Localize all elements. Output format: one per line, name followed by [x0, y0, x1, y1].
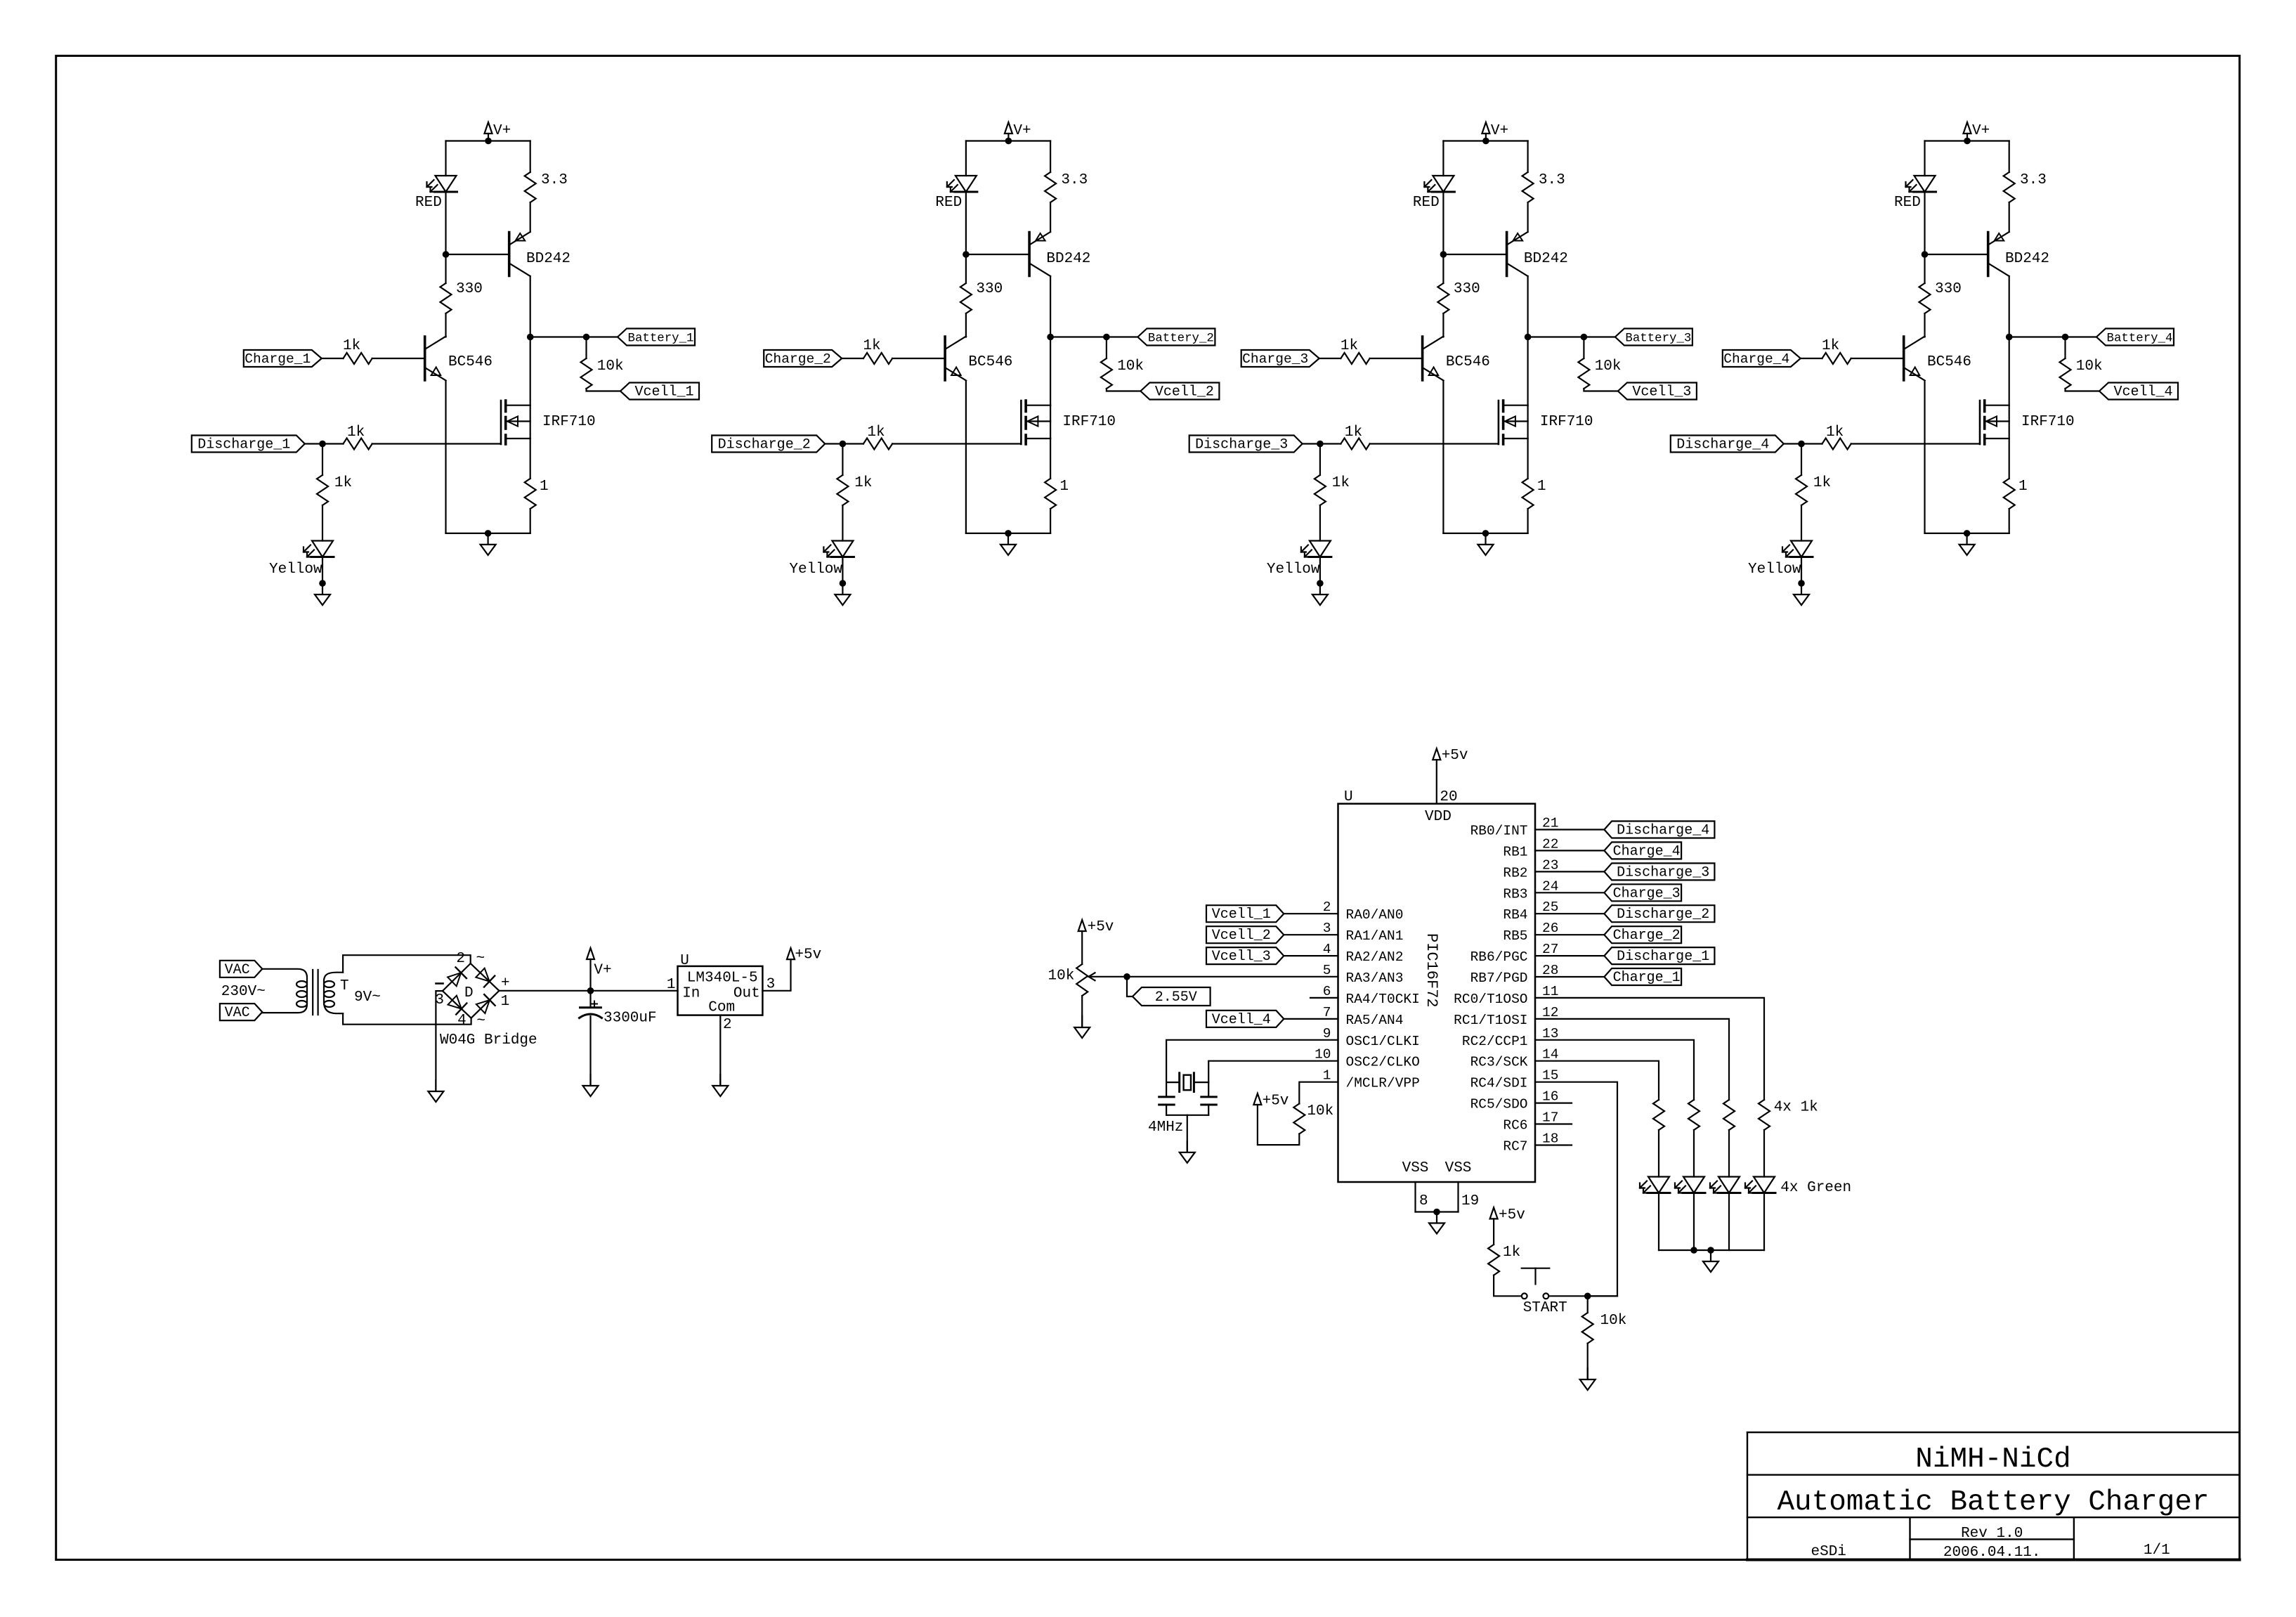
resistor 1 source (channel 1) — [525, 479, 536, 509]
flag Charge_4 — [1723, 350, 1801, 367]
ground symbol yellow LED (channel 1) — [322, 583, 323, 594]
wire resistor 1k to IRF710 gate (channel 2) — [892, 443, 1021, 444]
transistor BD242 PNP (channel 4) — [1987, 233, 1990, 276]
ground symbol regulator — [719, 1074, 721, 1085]
svg-text:Charge_1: Charge_1 — [244, 351, 311, 367]
svg-text:BC546: BC546 — [448, 354, 493, 370]
svg-text:4: 4 — [457, 1013, 467, 1029]
transistor IRF710 MOSFET (channel 4) — [1979, 401, 1981, 444]
svg-text:OSC2/CLKO: OSC2/CLKO — [1346, 1055, 1420, 1070]
svg-text:2.55V: 2.55V — [1155, 989, 1197, 1006]
resistor 1k yellow LED (channel 4) — [1796, 475, 1807, 505]
wire OSC2 to crystal — [1208, 1061, 1338, 1097]
wire yellow LED cathode to ground (channel 3) — [1319, 557, 1321, 584]
flag Vcell_4 — [2099, 383, 2178, 400]
power symbol V+ (channel 2) — [1007, 134, 1009, 141]
ground symbol yellow LED (channel 3) — [1319, 583, 1321, 594]
junction battery node at 10k (channel 2) — [1103, 334, 1110, 341]
svg-text:In: In — [682, 986, 700, 1002]
svg-text:RED: RED — [415, 195, 442, 211]
wire LED anode (channel 1) — [445, 141, 446, 176]
svg-text:U: U — [1344, 789, 1353, 805]
svg-text:Charge_2: Charge_2 — [765, 351, 831, 367]
resistor 10k divider (channel 4) — [2060, 358, 2071, 389]
svg-text:330: 330 — [456, 281, 483, 297]
wire LED cathode to base node (channel 3) — [1442, 192, 1444, 254]
LED Yellow (channel 3) — [1310, 541, 1331, 557]
wire LED anode (channel 2) — [965, 141, 967, 176]
wire base of BD242 (channel 4) — [1925, 254, 1988, 255]
svg-text:+: + — [501, 975, 510, 992]
junction discharge node (channel 2) — [840, 441, 847, 448]
transistor IRF710 MOSFET (channel 2) — [1020, 401, 1022, 444]
svg-text:W04G Bridge: W04G Bridge — [440, 1032, 537, 1048]
svg-text:BD242: BD242 — [2005, 251, 2049, 267]
wire resistor 10k to Vcell (channel 1) — [587, 389, 621, 391]
svg-text:+5v: +5v — [1442, 748, 1468, 764]
flag Discharge_1 — [1604, 947, 1714, 964]
svg-text:2006.04.11.: 2006.04.11. — [1943, 1545, 2041, 1561]
resistor 1k base (channel 4) — [1822, 353, 1851, 364]
svg-text:Yellow: Yellow — [269, 561, 322, 578]
wire resistor to LED column 2 — [1693, 1130, 1695, 1177]
transformer T secondary winding — [324, 973, 343, 1014]
ground symbol START — [1587, 1368, 1589, 1379]
wire switch to junction — [1548, 1295, 1617, 1297]
svg-text:1k: 1k — [1826, 424, 1844, 441]
wire OSC1 to crystal — [1166, 1040, 1338, 1097]
svg-text:RC5/SDO: RC5/SDO — [1470, 1097, 1528, 1112]
svg-text:RA1/AN1: RA1/AN1 — [1346, 928, 1404, 944]
transformer T core — [312, 970, 313, 1015]
potentiometer wiper arrow — [1089, 976, 1128, 978]
wire LED cathode to base node (channel 4) — [1924, 192, 1925, 254]
resistor 1k yellow LED (channel 3) — [1315, 475, 1326, 505]
wire resistor 330 to BC546 collector (channel 2) — [965, 313, 967, 337]
wire caps to ground rail — [1166, 1105, 1167, 1115]
wire to yellow resistor (channel 3) — [1319, 444, 1321, 476]
wire bridge plus output V+ — [499, 990, 677, 992]
svg-text:3.3: 3.3 — [1061, 172, 1088, 188]
svg-text:RED: RED — [1413, 195, 1440, 211]
wire resistor 1k to BC546 base (channel 1) — [372, 358, 425, 359]
ground symbol main (channel 1) — [487, 533, 488, 544]
svg-text:~: ~ — [476, 1013, 485, 1030]
transistor IRF710 MOSFET (channel 3) — [1498, 401, 1500, 444]
svg-text:Vcell_4: Vcell_4 — [1212, 1012, 1271, 1028]
power symbol +5v potentiometer — [1078, 920, 1086, 931]
svg-text:1: 1 — [667, 977, 676, 993]
wire to resistor 10k (channel 3) — [1583, 337, 1584, 359]
wire regulator out to +5v — [762, 959, 790, 991]
svg-text:11: 11 — [1542, 984, 1558, 999]
wire Vcell_2 to pin 3 — [1284, 934, 1338, 935]
wire battery node (channel 1) — [530, 336, 618, 337]
junction discharge node (channel 4) — [1798, 441, 1805, 448]
title block box — [1747, 1431, 2240, 1433]
svg-text:RA5/AN4: RA5/AN4 — [1346, 1013, 1404, 1028]
svg-text:RA2/AN2: RA2/AN2 — [1346, 949, 1404, 965]
svg-text:RB2: RB2 — [1503, 865, 1527, 881]
junction discharge node (channel 1) — [319, 441, 326, 448]
svg-text:START: START — [1523, 1300, 1567, 1316]
svg-text:RC7: RC7 — [1503, 1139, 1527, 1155]
junction battery node at 10k (channel 4) — [2062, 334, 2069, 341]
svg-text:23: 23 — [1542, 857, 1558, 873]
switch START contacts — [1522, 1293, 1527, 1299]
resistor 1 source (channel 4) — [2004, 479, 2015, 509]
svg-text:Battery_1: Battery_1 — [628, 332, 694, 346]
svg-text:8: 8 — [1419, 1193, 1428, 1209]
wire pin 28 to flag Charge_1 — [1535, 976, 1604, 978]
wire pot to ground — [1081, 996, 1083, 1027]
wire to discharge resistor (channel 3) — [1320, 443, 1341, 444]
svg-text:2: 2 — [1323, 900, 1331, 915]
resistor 1k LED column 3 — [1723, 1100, 1735, 1130]
power symbol +5v MCLR — [1253, 1093, 1261, 1105]
flag Vcell_3 — [1618, 383, 1697, 400]
svg-text:330: 330 — [1935, 281, 1962, 297]
wire source IRF710 to resistor 1 (channel 4) — [2009, 439, 2010, 479]
wire to resistor 10k (channel 1) — [585, 337, 587, 359]
svg-text:Com: Com — [708, 1000, 735, 1016]
junction V+ node (channel 3) — [1482, 138, 1489, 145]
wire resistor 330 to BC546 collector (channel 1) — [445, 313, 446, 337]
junction battery node at collector (channel 2) — [1047, 334, 1054, 341]
svg-text:9: 9 — [1323, 1026, 1331, 1041]
transistor BC546 NPN (channel 1) — [424, 337, 426, 380]
svg-text:BD242: BD242 — [1524, 251, 1568, 267]
svg-text:1k: 1k — [1813, 475, 1831, 491]
wire resistor to switch — [1494, 1275, 1522, 1297]
wire LED cathode column 1 — [1658, 1193, 1659, 1251]
junction ground rail (channel 3) — [1482, 530, 1489, 537]
wire resistor 10k to Vcell (channel 4) — [2066, 389, 2100, 391]
flag 2.55V — [1133, 987, 1211, 1006]
wire to discharge resistor (channel 1) — [322, 443, 344, 444]
svg-text:330: 330 — [976, 281, 1003, 297]
svg-text:IRF710: IRF710 — [1062, 414, 1116, 430]
svg-text:1k: 1k — [854, 475, 872, 491]
capacitor C 3300uF polarized — [589, 991, 591, 1008]
transistor BC546 NPN (channel 4) — [1903, 337, 1905, 380]
svg-text:Yellow: Yellow — [789, 561, 842, 578]
resistor 1k yellow LED (channel 1) — [317, 475, 328, 505]
ground symbol capacitor — [589, 1074, 591, 1085]
wire base of BD242 (channel 1) — [446, 254, 509, 255]
resistor 330 (channel 2) — [960, 283, 972, 313]
junction base node (channel 3) — [1440, 251, 1447, 258]
diode bridge 4-1 — [476, 1000, 490, 1013]
svg-text:Rev 1.0: Rev 1.0 — [1961, 1526, 2023, 1542]
wire resistor 3.3 to emitter (channel 2) — [1050, 202, 1051, 232]
wire battery node (channel 3) — [1528, 336, 1615, 337]
svg-text:Discharge_4: Discharge_4 — [1617, 823, 1709, 839]
wire resistor to ground — [1587, 1344, 1589, 1379]
resistor 1k gate (channel 2) — [863, 439, 892, 450]
capacitor load left — [1159, 1096, 1175, 1098]
svg-text:LM340L-5: LM340L-5 — [687, 970, 758, 986]
svg-text:Automatic Battery Charger: Automatic Battery Charger — [1777, 1486, 2209, 1519]
svg-text:24: 24 — [1542, 878, 1558, 894]
wire pin 15 to START — [1535, 1082, 1617, 1297]
wire resistor 330 to BC546 collector (channel 4) — [1924, 313, 1925, 337]
flag Discharge_3 — [1604, 863, 1714, 880]
svg-text:1: 1 — [1323, 1068, 1331, 1084]
wire Discharge_1 to junction — [305, 443, 322, 444]
junction yellow ground (channel 1) — [319, 580, 326, 587]
junction START node — [1584, 1293, 1591, 1300]
wire collector BD242 to battery node (channel 3) — [1527, 276, 1529, 337]
junction yellow ground (channel 4) — [1798, 580, 1805, 587]
svg-text:IRF710: IRF710 — [1540, 414, 1593, 430]
svg-text:20: 20 — [1440, 789, 1457, 805]
svg-text:RB0/INT: RB0/INT — [1470, 824, 1528, 839]
svg-text:1k: 1k — [867, 424, 885, 441]
wire base node to resistor 330 (channel 4) — [1924, 254, 1925, 283]
svg-text:Yellow: Yellow — [1748, 561, 1801, 578]
flag Battery_3 — [1615, 329, 1692, 346]
svg-text:V+: V+ — [1013, 123, 1031, 139]
wire LED cathode column 2 — [1693, 1193, 1695, 1251]
wire to yellow resistor (channel 2) — [842, 444, 843, 476]
junction wiper node — [1123, 973, 1130, 980]
flag VAC top — [220, 961, 262, 978]
svg-text:VDD: VDD — [1425, 809, 1452, 825]
svg-text:2: 2 — [723, 1017, 732, 1033]
svg-text:RA0/AN0: RA0/AN0 — [1346, 907, 1404, 923]
svg-text:10k: 10k — [2076, 358, 2103, 375]
wire resistor 1 to ground rail (channel 2) — [1050, 509, 1051, 533]
svg-text:RB6/PGC: RB6/PGC — [1470, 949, 1528, 965]
flag Battery_4 — [2096, 329, 2174, 346]
svg-text:Battery_2: Battery_2 — [1148, 332, 1214, 346]
power symbol V+ at capacitor — [589, 959, 591, 991]
LED Green 1 — [1648, 1177, 1669, 1193]
crystal Q 4MHz — [1166, 1082, 1180, 1083]
wire base of BD242 (channel 3) — [1443, 254, 1506, 255]
flag Vcell_1 — [620, 383, 699, 400]
wire ground rail (channel 3) — [1443, 533, 1527, 534]
svg-text:Discharge_1: Discharge_1 — [1617, 949, 1709, 965]
svg-text:3.3: 3.3 — [2020, 172, 2047, 188]
svg-text:VAC: VAC — [225, 1005, 250, 1021]
flag Discharge_2 — [712, 436, 825, 453]
svg-text:Charge_4: Charge_4 — [1723, 351, 1789, 367]
wire base node to resistor 330 (channel 3) — [1442, 254, 1444, 283]
wire collector BD242 to battery node (channel 2) — [1050, 276, 1051, 337]
svg-text:T: T — [340, 978, 349, 994]
wire LED cathode column 3 — [1728, 1193, 1730, 1251]
svg-text:Vcell_1: Vcell_1 — [634, 384, 693, 401]
resistor 3.3 (channel 3) — [1522, 172, 1534, 202]
wire resistor 3.3 to emitter (channel 3) — [1527, 202, 1529, 232]
wire Charge_4 to resistor 1k — [1801, 358, 1822, 359]
ground symbol crystal — [1187, 1141, 1188, 1152]
svg-text:RED: RED — [1894, 195, 1921, 211]
LED RED (channel 2) — [955, 176, 977, 192]
svg-text:12: 12 — [1542, 1005, 1558, 1020]
svg-text:RB7/PGD: RB7/PGD — [1470, 970, 1528, 986]
wire to discharge resistor (channel 4) — [1801, 443, 1822, 444]
transformer T primary winding — [262, 969, 307, 1013]
svg-text:Discharge_3: Discharge_3 — [1195, 437, 1288, 453]
svg-text:4x 1k: 4x 1k — [1774, 1100, 1818, 1116]
wire yellow LED cathode to ground (channel 1) — [322, 557, 323, 584]
wire Discharge_2 to junction — [825, 443, 842, 444]
wire resistor 1k to IRF710 gate (channel 3) — [1370, 443, 1499, 444]
wire pin 11 to LED column — [1535, 998, 1764, 1100]
flag Discharge_2 — [1604, 905, 1714, 922]
resistor 330 (channel 3) — [1437, 283, 1449, 313]
wire drain IRF710 up to battery node (channel 3) — [1527, 337, 1529, 405]
svg-text:Charge_3: Charge_3 — [1242, 351, 1308, 367]
resistor 3.3 (channel 4) — [2004, 172, 2015, 202]
power symbol +5v VDD — [1436, 760, 1437, 804]
power symbol V+ (channel 1) — [488, 134, 489, 141]
svg-text:10k: 10k — [1600, 1313, 1627, 1329]
svg-text:9V~: 9V~ — [354, 989, 381, 1006]
wire drain IRF710 up to battery node (channel 4) — [2009, 337, 2010, 405]
ground symbol yellow LED (channel 4) — [1801, 583, 1802, 594]
LED Yellow (channel 4) — [1791, 541, 1812, 557]
svg-text:1k: 1k — [863, 338, 880, 354]
svg-text:22: 22 — [1542, 836, 1558, 852]
resistor 1k gate (channel 3) — [1341, 439, 1369, 450]
wire BC546 emitter to ground rail (channel 4) — [1924, 381, 1925, 533]
ground symbol yellow LED (channel 2) — [842, 583, 843, 594]
wire pin 22 to flag Charge_4 — [1535, 850, 1604, 851]
svg-text:Vcell_2: Vcell_2 — [1155, 384, 1214, 401]
svg-text:10k: 10k — [1595, 358, 1622, 375]
svg-text:18: 18 — [1542, 1131, 1558, 1147]
wire pin 24 to flag Charge_3 — [1535, 892, 1604, 893]
wire Charge_2 to resistor 1k — [842, 358, 863, 359]
power symbol +5v regulator — [787, 948, 795, 959]
wire Charge_3 to resistor 1k — [1319, 358, 1341, 359]
svg-text:RB3: RB3 — [1503, 886, 1527, 902]
resistor 1k gate (channel 1) — [344, 439, 372, 450]
wire stub pin 6 — [1310, 997, 1338, 999]
flag Charge_2 — [1604, 926, 1681, 943]
wire Vcell_3 to pin 4 — [1284, 955, 1338, 956]
svg-text:BD242: BD242 — [526, 251, 570, 267]
ground symbol VSS — [1436, 1212, 1437, 1223]
ground symbol potentiometer — [1081, 1016, 1083, 1027]
wire capacitor to ground — [589, 1016, 591, 1085]
junction battery node at 10k (channel 1) — [583, 334, 590, 341]
svg-text:~: ~ — [476, 951, 485, 967]
junction LED rail 1 — [1690, 1247, 1697, 1254]
wire LED cathode to base node (channel 1) — [445, 192, 446, 254]
wire resistor to yellow LED (channel 4) — [1801, 505, 1802, 541]
wire secondary bottom to bridge — [343, 1013, 471, 1025]
svg-text:4: 4 — [1323, 942, 1331, 957]
ground symbol main (channel 4) — [1966, 533, 1968, 544]
wire Discharge_4 to junction — [1784, 443, 1801, 444]
resistor 1k LED column 1 — [1653, 1100, 1664, 1130]
flag Vcell_4 — [1206, 1011, 1284, 1027]
junction V+ node (channel 4) — [1964, 138, 1971, 145]
wire pin 23 to flag Discharge_3 — [1535, 871, 1604, 872]
svg-text:RA4/T0CKI: RA4/T0CKI — [1346, 992, 1420, 1007]
wire Discharge_3 to junction — [1303, 443, 1320, 444]
wire Charge_1 to resistor 1k — [322, 358, 344, 359]
wire collector BD242 to battery node (channel 1) — [530, 276, 531, 337]
resistor 10k divider (channel 2) — [1101, 358, 1112, 389]
resistor 1k LED column 2 — [1688, 1100, 1700, 1130]
svg-text:Discharge_2: Discharge_2 — [718, 437, 811, 453]
wire to resistor 3.3 (channel 1) — [530, 141, 531, 173]
wire wiper to pin 5 — [1127, 976, 1338, 978]
wire pin 25 to flag Discharge_2 — [1535, 913, 1604, 914]
wire stub pin 18 — [1535, 1144, 1572, 1145]
transistor IRF710 MOSFET (channel 1) — [500, 401, 502, 444]
wire source IRF710 to resistor 1 (channel 3) — [1527, 439, 1529, 479]
flag VAC bottom — [220, 1004, 262, 1020]
resistor 1k gate (channel 4) — [1822, 439, 1851, 450]
svg-text:VAC: VAC — [225, 962, 250, 978]
junction ground rail (channel 1) — [485, 530, 492, 537]
wire base node to resistor 330 (channel 2) — [965, 254, 967, 283]
wire to yellow resistor (channel 1) — [322, 444, 323, 476]
wire resistor 3.3 to emitter (channel 1) — [530, 202, 531, 232]
ground symbol main (channel 3) — [1485, 533, 1486, 544]
svg-text:RC1/T1OSI: RC1/T1OSI — [1454, 1013, 1527, 1028]
resistor 10k divider (channel 3) — [1578, 358, 1589, 389]
junction base node (channel 4) — [1922, 251, 1929, 258]
svg-text:RC3/SCK: RC3/SCK — [1470, 1055, 1528, 1070]
LED RED (channel 1) — [436, 176, 457, 192]
LED Yellow (channel 2) — [832, 541, 853, 557]
svg-text:Out: Out — [733, 986, 760, 1002]
svg-text:RED: RED — [935, 195, 962, 211]
svg-text:2: 2 — [456, 951, 465, 967]
svg-text:10k: 10k — [1048, 968, 1074, 985]
flag Charge_1 — [244, 350, 322, 367]
svg-text:Discharge_2: Discharge_2 — [1617, 907, 1709, 923]
flag Vcell_1 — [1206, 905, 1284, 922]
wire LED cathode column 4 — [1763, 1193, 1765, 1251]
svg-text:+5v: +5v — [1088, 919, 1114, 935]
resistor 3.3 (channel 2) — [1045, 172, 1056, 202]
transistor BD242 PNP (channel 1) — [508, 233, 511, 276]
svg-text:1k: 1k — [1822, 338, 1839, 354]
svg-text:/MCLR/VPP: /MCLR/VPP — [1346, 1076, 1420, 1091]
svg-text:Discharge_3: Discharge_3 — [1617, 864, 1709, 881]
flag Charge_3 — [1241, 350, 1319, 367]
svg-text:+5v: +5v — [795, 947, 821, 963]
svg-text:Charge_2: Charge_2 — [1613, 928, 1681, 944]
resistor 1 source (channel 3) — [1522, 479, 1534, 509]
svg-text:3300uF: 3300uF — [604, 1011, 657, 1027]
resistor 1k yellow LED (channel 2) — [837, 475, 848, 505]
junction VSS ground — [1433, 1209, 1440, 1216]
svg-text:+5v: +5v — [1263, 1093, 1289, 1110]
transistor BC546 NPN (channel 2) — [944, 337, 946, 380]
flag Battery_2 — [1137, 329, 1215, 346]
svg-text:BC546: BC546 — [968, 354, 1012, 370]
svg-text:+5v: +5v — [1499, 1207, 1525, 1223]
wire Vcell_4 to pin 7 — [1284, 1018, 1338, 1020]
resistor 3.3 (channel 1) — [525, 172, 536, 202]
wire secondary top to bridge — [343, 955, 471, 973]
transistor BD242 PNP (channel 2) — [1028, 233, 1031, 276]
svg-text:OSC1/CLKI: OSC1/CLKI — [1346, 1034, 1420, 1049]
svg-text:Vcell_1: Vcell_1 — [1212, 907, 1271, 923]
wire resistor 1k to BC546 base (channel 3) — [1370, 358, 1423, 359]
svg-text:V+: V+ — [1491, 123, 1508, 139]
